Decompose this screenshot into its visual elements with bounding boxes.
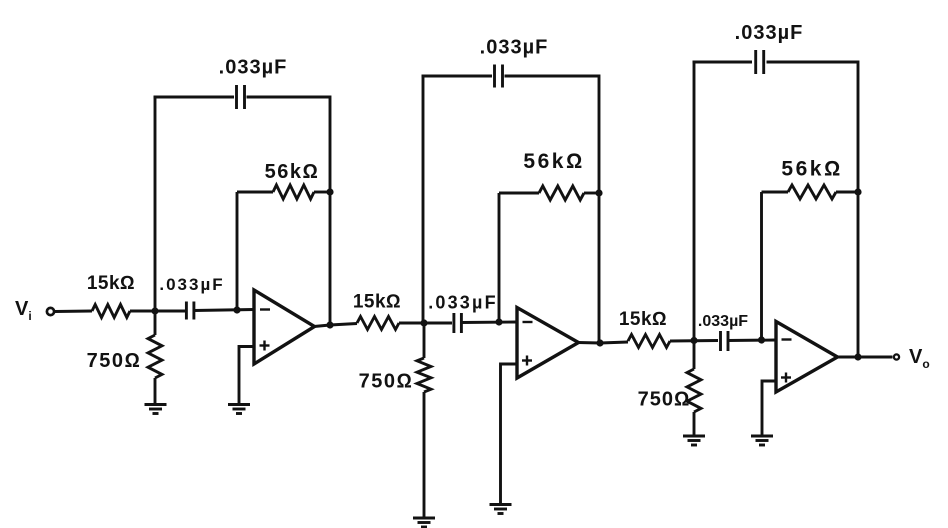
label R3 56k&#937; [265,161,320,183]
wire [501,364,518,504]
node U1 output [326,321,333,328]
wire [837,356,893,359]
wire [767,61,859,64]
wire [836,191,858,194]
node C (stage 2 input node) [420,319,427,326]
svg-text:.033µF: .033µF [428,293,498,313]
wire [462,321,518,324]
node E (stage 3 input node) [690,337,697,344]
wire [423,392,426,518]
label R2 750&#937; [87,350,142,372]
resistor R9 56k&#937; (stage 3 feedback) [788,185,836,199]
wire [130,310,185,313]
ground (U2 non-inverting input) [490,505,512,514]
op-amp U3 [776,322,838,393]
label Vo [909,346,930,371]
capacitor C5 .033&#181;F (stage 3 coupling) [721,331,729,351]
wire [670,339,718,342]
wire [598,75,601,344]
label R8 750&#937; [638,389,691,411]
label R7 15k&#937; [619,309,667,330]
node stage 1 feedback junction [326,188,333,195]
terminal Vo output [894,354,899,359]
wire [578,342,628,343]
svg-text:.033µF: .033µF [159,275,224,294]
wire [154,311,157,335]
wire [498,193,501,322]
resistor R5 750&#937; (stage 2 shunt) [417,358,431,392]
svg-text:56kΩ: 56kΩ [781,158,842,181]
ground (R8) [683,436,705,445]
svg-text:56kΩ: 56kΩ [523,150,584,173]
node stage 3 feedback junction [854,188,861,195]
wire [194,310,254,311]
wire [760,192,763,340]
svg-text:.033µF: .033µF [735,22,804,44]
svg-text:56kΩ: 56kΩ [265,161,320,183]
resistor R4 15k&#937; (stage 2 series) [357,317,399,330]
label C6 .033&#181;F [735,22,804,44]
label C3 .033&#181;F [428,293,498,313]
capacitor C2 .033&#181;F (stage 1 feedback) [237,85,245,109]
capacitor C3 .033&#181;F (stage 2 coupling) [454,313,462,333]
ground (R2) [145,405,167,414]
label C1 .033&#181;F [159,275,224,294]
capacitor C1 .033&#181;F (stage 1 coupling) [186,302,194,320]
wire [236,192,239,310]
svg-text:15kΩ: 15kΩ [619,309,667,330]
wire [584,192,599,195]
svg-text:750Ω: 750Ω [87,350,142,372]
wire [55,310,92,313]
resistor R7 15k&#937; (stage 3 series) [628,335,670,348]
wire [237,191,273,194]
resistor R2 750&#937; (stage 1 shunt) [148,335,162,378]
wire [762,381,776,436]
svg-text:.033µF: .033µF [480,37,549,59]
node stage 2 feedback junction [595,189,602,196]
svg-text:.033µF: .033µF [698,313,748,330]
wire [693,341,696,369]
svg-text:750Ω: 750Ω [359,371,414,393]
terminal Vi input [47,308,54,315]
wire [314,191,330,194]
wire [422,75,493,78]
ground (U3 non-inverting input) [751,436,773,445]
label R6 56k&#937; [523,150,584,173]
label C2 .033&#181;F [219,57,288,79]
svg-text:Vo: Vo [909,346,930,371]
op-amp U2 [517,308,579,379]
ground (R5) [413,518,435,527]
ground (U1 non-inverting input) [228,405,250,414]
wire [505,75,600,78]
resistor R1 15k&#937; (stage 1 series) [92,305,130,318]
node U3 inverting input [758,336,765,343]
label C4 .033&#181;F [480,37,549,59]
label R5 750&#937; [359,371,414,393]
wire [857,61,860,358]
label C5 .033&#181;F [698,313,748,330]
wire [399,322,452,325]
wire [762,191,789,194]
wire [499,192,539,195]
wire [728,339,776,342]
op-amp U1 [254,290,315,364]
resistor R8 750&#937; (stage 3 shunt) [687,369,701,412]
svg-text:15kΩ: 15kΩ [87,273,135,294]
resistor R6 56k&#937; (stage 2 feedback) [539,186,584,200]
label R9 56k&#937; [781,158,842,181]
label R4 15k&#937; [353,292,401,313]
svg-text:750Ω: 750Ω [638,389,691,411]
wire [154,96,235,99]
resistor R3 56k&#937; (stage 1 feedback) [273,185,314,199]
wire [154,96,157,311]
node U2 inverting input [495,318,502,325]
wire [329,96,332,326]
node A (stage 1 input node) [151,307,158,314]
node U1 inverting input [233,306,240,313]
wire [693,61,753,64]
node U2 output [596,339,603,346]
label Vi [15,298,32,323]
wire [693,61,696,341]
svg-text:15kΩ: 15kΩ [353,292,401,313]
wire [422,75,425,323]
wire [239,347,254,405]
wire [247,96,331,99]
wire [314,324,357,327]
svg-text:.033µF: .033µF [219,57,288,79]
svg-text:Vi: Vi [15,298,32,323]
capacitor C4 .033&#181;F (stage 2 feedback) [495,65,503,88]
node U3 output [854,353,861,360]
label R1 15k&#937; [87,273,135,294]
wire [154,378,157,404]
wire [423,323,426,358]
capacitor C6 .033&#181;F (stage 3 feedback) [756,50,764,74]
wire [693,412,696,436]
